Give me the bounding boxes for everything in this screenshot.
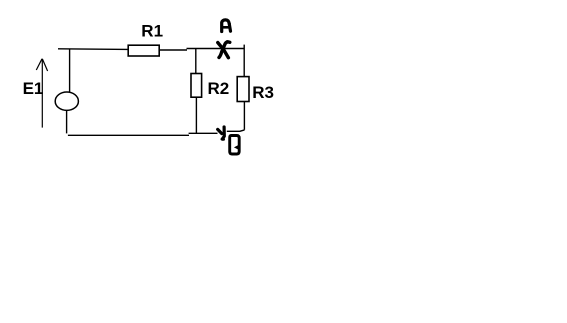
source E1 bbox=[55, 92, 78, 110]
wire bottom right segment bbox=[227, 130, 240, 132]
arrow E1 bbox=[36, 59, 47, 128]
node B check mark bbox=[218, 127, 225, 139]
resistor R3 bbox=[237, 77, 249, 102]
svg-text:R2: R2 bbox=[208, 79, 230, 98]
resistor R2 bbox=[191, 74, 202, 98]
svg-text:R3: R3 bbox=[252, 83, 274, 102]
svg-text:E1: E1 bbox=[23, 79, 44, 98]
wire bottom left segment bbox=[68, 134, 189, 136]
wire bottom step segment bbox=[189, 132, 218, 134]
wire top right segment bbox=[187, 48, 245, 50]
wire top left segment bbox=[58, 48, 129, 51]
wire R2 branch lower bbox=[195, 97, 197, 133]
node B bbox=[230, 136, 240, 155]
wire R3 branch lower bbox=[243, 102, 245, 130]
wire R2 branch upper bbox=[195, 49, 197, 74]
wire top middle segment bbox=[159, 49, 187, 51]
wire R3 branch upper bbox=[243, 45, 245, 77]
wire E1 branch lower bbox=[66, 110, 68, 133]
wire bottom jog to R3 bbox=[240, 130, 245, 131]
wire E1 branch upper bbox=[69, 49, 71, 93]
node A cross mark X bbox=[218, 42, 230, 58]
resistor R1 bbox=[128, 45, 159, 56]
node A bbox=[222, 20, 231, 32]
node B notch bbox=[234, 144, 240, 150]
svg-text:R1: R1 bbox=[141, 21, 163, 40]
